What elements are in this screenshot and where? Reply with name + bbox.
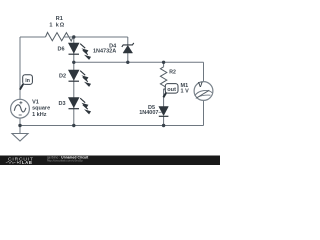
svg-text:1 V: 1 V <box>181 89 190 95</box>
svg-text:LAB: LAB <box>22 160 33 165</box>
svg-text:1 kΩ: 1 kΩ <box>49 22 65 28</box>
svg-text:http://circuitlab.com/c/9xd3p: http://circuitlab.com/c/9xd3p <box>47 158 83 162</box>
svg-text:D6: D6 <box>57 47 64 53</box>
svg-text:out: out <box>167 87 176 93</box>
svg-text:1N4007: 1N4007 <box>139 110 158 116</box>
svg-text:square: square <box>32 106 50 112</box>
svg-text:D2: D2 <box>59 74 66 80</box>
svg-text:R1: R1 <box>56 16 63 22</box>
svg-text:V: V <box>198 82 203 89</box>
svg-text:in: in <box>25 78 30 84</box>
svg-text:R2: R2 <box>169 69 176 75</box>
svg-text:V1: V1 <box>32 99 39 105</box>
svg-text:1 kHz: 1 kHz <box>32 112 47 118</box>
svg-text:D3: D3 <box>58 101 65 107</box>
svg-text:1N4732A: 1N4732A <box>93 48 116 54</box>
